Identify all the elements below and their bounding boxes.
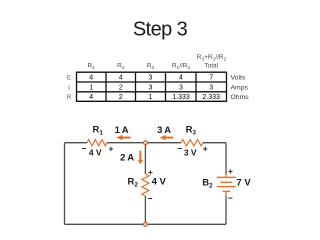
svg-text:3: 3 (209, 84, 213, 91)
svg-text:4: 4 (179, 75, 183, 82)
R3 polarity minus (177, 143, 182, 153)
table values row I (89, 84, 213, 91)
label R3 (186, 125, 197, 137)
svg-text:1: 1 (89, 84, 93, 91)
label B2 (202, 177, 213, 189)
R2 polarity minus (148, 193, 153, 203)
node junction top (144, 141, 148, 145)
label R2 (128, 176, 139, 188)
wire right lower segment (225, 196, 227, 225)
wire bottom (65, 223, 227, 225)
svg-text:2: 2 (119, 94, 123, 101)
current arrow 1 A (left) (116, 135, 130, 140)
svg-text:7: 7 (209, 75, 213, 82)
table unit labels (231, 75, 250, 102)
R1 polarity minus (82, 143, 87, 153)
B2 polarity plus (228, 166, 233, 176)
table grid (77, 72, 227, 102)
current arrow 3 A (left) (160, 135, 174, 140)
svg-text:+: + (228, 166, 233, 176)
node junction bottom (144, 222, 148, 226)
svg-text:+: + (148, 167, 153, 177)
table values row R (89, 94, 220, 101)
wire left branch (64, 143, 66, 225)
svg-text:2 A: 2 A (120, 153, 134, 164)
svg-text:Volts: Volts (231, 75, 246, 82)
svg-text:I: I (68, 84, 70, 91)
svg-text:+: + (203, 143, 208, 153)
svg-text:−: − (148, 193, 153, 203)
svg-text:7 V: 7 V (236, 177, 251, 188)
resistor R2 (142, 174, 149, 196)
wire right upper segment (225, 143, 227, 174)
battery B2 (217, 173, 236, 195)
svg-text:4 V: 4 V (89, 148, 102, 158)
svg-text:−: − (177, 143, 182, 153)
resistor R1 (87, 140, 107, 146)
svg-text:4: 4 (89, 75, 93, 82)
R1 value 4 V (89, 148, 102, 158)
resistor R3 (181, 140, 203, 146)
label R1 (93, 125, 104, 137)
table row labels E I R (67, 75, 72, 102)
svg-text:Total: Total (204, 63, 218, 70)
svg-text:2: 2 (119, 84, 123, 91)
svg-text:4 V: 4 V (152, 176, 167, 187)
svg-text:3: 3 (149, 75, 153, 82)
wire middle lower segment (144, 196, 146, 224)
svg-text:+: + (109, 144, 114, 154)
svg-text:2.333: 2.333 (202, 94, 220, 101)
B2 value 7 V (236, 177, 251, 188)
svg-text:R: R (67, 94, 72, 101)
wire top-left segment (65, 142, 88, 144)
svg-text:1 A: 1 A (115, 125, 129, 136)
svg-text:Step 3: Step 3 (133, 18, 188, 40)
svg-text:Ohms: Ohms (231, 94, 250, 101)
svg-text:3 V: 3 V (184, 148, 197, 158)
label 3 A (157, 125, 171, 136)
R2 polarity plus (148, 167, 153, 177)
wire top-middle segment (107, 142, 181, 144)
R1 polarity plus (109, 144, 114, 154)
svg-text:3: 3 (149, 84, 153, 91)
svg-text:3: 3 (179, 84, 183, 91)
svg-text:−: − (82, 143, 87, 153)
svg-text:1.333: 1.333 (172, 94, 190, 101)
R3 value 3 V (184, 148, 197, 158)
table column headers (88, 54, 227, 71)
label 1 A (115, 125, 129, 136)
svg-text:Amps: Amps (231, 84, 249, 91)
svg-text:4: 4 (119, 75, 123, 82)
current arrow 2 A (down) (138, 151, 143, 165)
B2 polarity minus (228, 193, 233, 203)
R2 value 4 V (152, 176, 167, 187)
svg-text:4: 4 (89, 94, 93, 101)
wire middle upper segment (144, 143, 146, 174)
R3 polarity plus (203, 143, 208, 153)
svg-text:−: − (228, 193, 233, 203)
svg-text:E: E (67, 75, 72, 82)
svg-text:3 A: 3 A (157, 125, 171, 136)
label 2 A (120, 153, 134, 164)
table values row E (89, 75, 213, 82)
wire top-right segment (203, 142, 226, 144)
svg-text:1: 1 (149, 94, 153, 101)
